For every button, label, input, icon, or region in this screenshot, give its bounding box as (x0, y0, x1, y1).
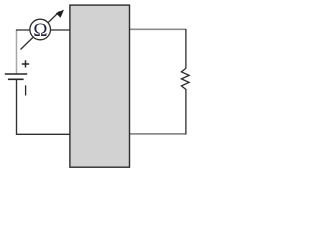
svg-text:Ω: Ω (33, 20, 47, 41)
